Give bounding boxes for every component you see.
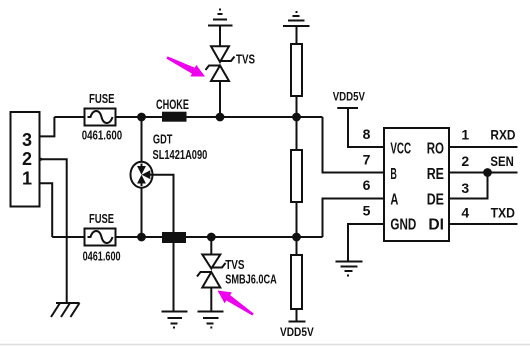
wire connector pin2 to chassis ground xyxy=(40,159,67,303)
wire bottom line segment 3 xyxy=(185,236,323,238)
VDD5V bottom rail xyxy=(280,322,314,340)
wire pin 2 RE to SEN xyxy=(449,172,518,174)
fuse F1 xyxy=(82,91,123,143)
ground below GDT xyxy=(162,312,188,328)
wire pin 1 RO to RXD xyxy=(449,146,518,148)
svg-text:RE: RE xyxy=(427,166,445,183)
wire GDT third electrode to ground xyxy=(152,175,174,311)
annotation arrow at TVS1 xyxy=(166,56,205,76)
chassis ground xyxy=(51,303,80,317)
TVS D1 xyxy=(206,46,256,117)
svg-text:3: 3 xyxy=(22,130,32,150)
ground above R1 xyxy=(283,12,310,44)
junction top line / TVS1 xyxy=(217,114,224,121)
svg-text:4: 4 xyxy=(461,205,469,221)
svg-text:GDT: GDT xyxy=(153,132,173,147)
svg-text:SMBJ6.0CA: SMBJ6.0CA xyxy=(225,271,277,286)
choke L1 xyxy=(156,96,189,121)
svg-text:3: 3 xyxy=(461,180,469,196)
junction bottom line / GDT xyxy=(138,234,145,241)
junction bottom line / R divider xyxy=(293,234,300,241)
ground above TVS1 xyxy=(208,10,233,47)
svg-text:DE: DE xyxy=(427,191,445,208)
junction SEN / DE xyxy=(484,169,491,176)
wire bottom line to R3 xyxy=(296,237,298,255)
wire pin 3 DE up to SEN line xyxy=(449,173,488,199)
IC U1 MAX485 xyxy=(384,128,449,241)
wire R2 to bottom line xyxy=(296,202,298,237)
svg-text:B: B xyxy=(390,166,397,183)
svg-text:GND: GND xyxy=(390,216,416,233)
svg-text:0461.600: 0461.600 xyxy=(82,128,123,143)
svg-text:SEN: SEN xyxy=(490,153,513,169)
svg-text:RXD: RXD xyxy=(490,127,515,143)
svg-text:1: 1 xyxy=(22,169,32,189)
wire top line corner down to pin 7 xyxy=(323,117,385,173)
wire top line segment 2 xyxy=(116,116,164,118)
junction top line / R divider xyxy=(293,114,300,121)
svg-text:TVS: TVS xyxy=(225,257,245,272)
annotation arrow at TVS2 xyxy=(218,291,254,316)
fuse F2 xyxy=(83,211,121,264)
svg-text:DI: DI xyxy=(428,216,444,233)
svg-text:6: 6 xyxy=(363,177,371,193)
connector J1 xyxy=(11,112,40,207)
wire pin 5 GND to ground xyxy=(348,224,384,261)
svg-text:5: 5 xyxy=(363,203,371,219)
wire pin 4 DI to TXD xyxy=(449,223,518,225)
ground below TVS2 xyxy=(198,312,224,328)
svg-text:RO: RO xyxy=(427,140,444,157)
wire bottom line segment 2 xyxy=(116,236,164,238)
wire top line segment 1 xyxy=(54,116,84,118)
VDD5V top rail xyxy=(333,90,384,147)
junction bottom line / TVS2 xyxy=(208,234,215,241)
svg-text:2: 2 xyxy=(22,149,32,169)
wire bottom line corner up from pin 6 xyxy=(323,199,385,238)
resistor R1 xyxy=(291,44,302,96)
wire top line to R2 xyxy=(296,117,298,150)
wire connector pin1 to bottom line xyxy=(40,183,53,237)
svg-text:VDD5V: VDD5V xyxy=(333,90,365,104)
svg-text:TVS: TVS xyxy=(236,52,255,67)
svg-text:FUSE: FUSE xyxy=(89,211,114,226)
svg-text:FUSE: FUSE xyxy=(89,91,115,106)
bottom page border xyxy=(0,344,530,346)
GDT arrester xyxy=(131,117,208,237)
choke L2 xyxy=(163,233,185,242)
wire top line segment 3 xyxy=(186,116,323,118)
wire R1 to top line xyxy=(296,96,298,117)
svg-text:7: 7 xyxy=(363,152,371,168)
ground below pin 5 xyxy=(336,262,363,276)
svg-text:1: 1 xyxy=(461,127,469,143)
svg-text:A: A xyxy=(390,191,398,208)
svg-text:SL1421A090: SL1421A090 xyxy=(153,147,208,162)
svg-text:0461.600: 0461.600 xyxy=(83,249,121,264)
svg-text:VDD5V: VDD5V xyxy=(280,325,314,339)
svg-text:8: 8 xyxy=(363,126,371,142)
svg-text:2: 2 xyxy=(461,153,469,169)
wire connector pin3 to top line xyxy=(40,117,55,136)
wire R3 to VDD5V bar xyxy=(296,309,298,322)
svg-text:CHOKE: CHOKE xyxy=(156,96,189,112)
resistor R2 xyxy=(291,150,302,202)
svg-text:TXD: TXD xyxy=(491,205,515,221)
svg-text:VCC: VCC xyxy=(390,140,411,157)
resistor R3 xyxy=(291,255,302,309)
junction top line / GDT xyxy=(138,114,145,121)
wire bottom line segment 1 xyxy=(52,236,84,238)
TVS D2 xyxy=(197,237,277,311)
